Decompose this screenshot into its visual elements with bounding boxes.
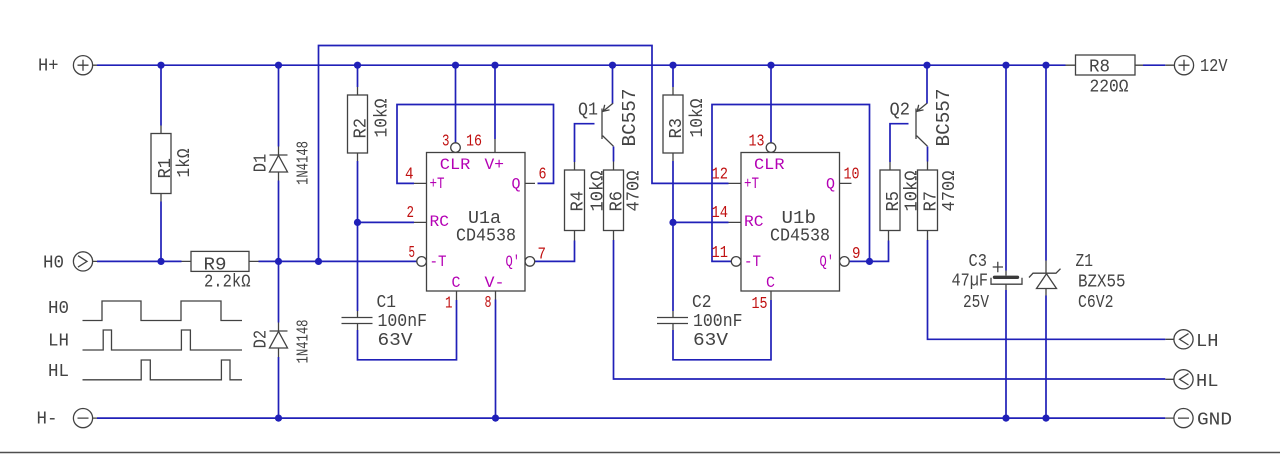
svg-text:10kΩ: 10kΩ — [373, 98, 393, 137]
terminal 12V — [1165, 56, 1227, 77]
svg-text:R8: R8 — [1089, 57, 1110, 77]
svg-text:14: 14 — [712, 204, 729, 223]
junction H+ bus / U1a pin 3 — [452, 62, 459, 69]
svg-text:1N4148: 1N4148 — [295, 320, 314, 364]
svg-text:D2: D2 — [252, 330, 272, 349]
svg-text:V-: V- — [485, 274, 505, 292]
svg-text:1: 1 — [445, 294, 453, 313]
svg-text:CLR: CLR — [440, 156, 471, 174]
junction H+ bus / U1b pin 13 — [767, 62, 774, 69]
svg-text:C: C — [452, 274, 461, 292]
wire H- bus — [97, 417, 1165, 419]
terminal LH — [1165, 330, 1218, 352]
wire R2 branch — [357, 65, 359, 311]
wire U1a Q' pin7 to R4 — [535, 241, 575, 262]
svg-text:13: 13 — [749, 132, 765, 151]
svg-text:Q': Q' — [820, 253, 835, 271]
svg-text:16: 16 — [466, 132, 482, 151]
resistor R7 — [918, 162, 961, 241]
wire R1 branch — [160, 65, 162, 261]
svg-text:25V: 25V — [963, 293, 989, 313]
diode D2 — [252, 320, 314, 364]
svg-text:2: 2 — [407, 204, 415, 223]
junction H- bus / D2 — [275, 415, 282, 422]
svg-text:C3: C3 — [969, 252, 988, 272]
resistor R4 — [565, 162, 609, 241]
svg-text:4: 4 — [405, 165, 414, 184]
svg-text:CLR: CLR — [754, 156, 785, 174]
wire Q1 collector to R6 — [613, 147, 615, 162]
wire U1b -T loop to Q' — [712, 105, 870, 262]
svg-text:5: 5 — [409, 244, 416, 263]
junction H- bus / U1a pin 8 — [492, 415, 499, 422]
svg-text:R4: R4 — [569, 191, 589, 212]
svg-text:H0: H0 — [48, 299, 69, 319]
waveform LH — [48, 330, 242, 351]
svg-text:Q': Q' — [506, 253, 521, 271]
svg-text:H0: H0 — [43, 253, 64, 273]
svg-text:+T: +T — [430, 175, 445, 193]
svg-text:1kΩ: 1kΩ — [175, 148, 195, 177]
svg-text:+T: +T — [744, 175, 759, 193]
terminal HL — [1165, 370, 1218, 392]
wire R4 to Q1 base — [575, 124, 595, 162]
terminal GND — [1165, 409, 1232, 431]
svg-text:100nF: 100nF — [378, 312, 428, 332]
wire U1b CLR pin13 — [770, 65, 772, 142]
svg-text:R1: R1 — [156, 158, 176, 179]
resistor R9 — [182, 251, 259, 292]
svg-text:Z1: Z1 — [1076, 252, 1094, 272]
svg-text:8: 8 — [485, 294, 492, 313]
wire C3 branch — [1005, 65, 1007, 418]
svg-text:63V: 63V — [378, 331, 413, 351]
junction H+ bus / R2 — [354, 62, 361, 69]
junction H+ bus / C3 — [1002, 62, 1009, 69]
junction node RC2 (R3/C2/U1b pin 14) — [669, 219, 676, 226]
diode D1 — [252, 141, 314, 185]
svg-text:C1: C1 — [377, 293, 397, 313]
resistor R6 — [604, 162, 645, 241]
svg-text:R3: R3 — [667, 118, 687, 139]
wire D1 D2 branch — [278, 65, 280, 418]
wire U1b RC pin14 — [673, 221, 729, 223]
svg-text:470Ω: 470Ω — [625, 170, 645, 211]
transistor Q1 — [578, 89, 641, 147]
svg-text:220Ω: 220Ω — [1090, 77, 1129, 97]
wire Q2 emitter to bus — [926, 65, 928, 103]
svg-text:H+: H+ — [38, 57, 59, 77]
svg-text:15: 15 — [752, 295, 768, 314]
wire R7 to LH line — [928, 240, 1166, 339]
wire R3 branch — [672, 65, 674, 311]
terminal H+ — [38, 56, 97, 77]
waveform HL — [48, 360, 242, 382]
IC U1a — [405, 132, 547, 313]
terminal H- — [37, 409, 98, 430]
svg-text:RC: RC — [430, 213, 450, 231]
wire Q2 collector to R7 — [927, 147, 929, 162]
wire R8 to 12V — [1143, 64, 1165, 66]
svg-text:470Ω: 470Ω — [940, 170, 960, 211]
svg-text:R2: R2 — [352, 118, 372, 139]
wire Z1 branch — [1045, 65, 1047, 418]
wire H0 to U1b +T — [319, 46, 729, 262]
svg-text:6: 6 — [539, 165, 547, 184]
wire Q1 emitter to bus — [612, 65, 614, 103]
svg-text:BZX55: BZX55 — [1078, 272, 1126, 292]
svg-text:CD4538: CD4538 — [770, 226, 830, 246]
junction H- bus / Z1 — [1042, 415, 1049, 422]
capacitor C2 — [657, 293, 743, 351]
junction H+ bus / R3 — [669, 62, 676, 69]
junction H0 node / riser to U1b +T — [315, 258, 322, 265]
wire C2 to pin15 — [673, 300, 771, 360]
svg-text:HL: HL — [1196, 372, 1219, 392]
wire U1a V- pin8 to H- — [495, 300, 497, 419]
wire U1a CLR pin3 — [455, 65, 457, 142]
svg-text:HL: HL — [48, 362, 69, 382]
svg-text:10kΩ: 10kΩ — [688, 98, 708, 137]
svg-text:Q2: Q2 — [890, 101, 911, 121]
junction H+ bus / Z1 — [1042, 62, 1049, 69]
svg-text:C2: C2 — [692, 293, 712, 313]
svg-text:63V: 63V — [693, 331, 728, 351]
junction H+ bus / U1a pin 16 — [491, 62, 498, 69]
svg-text:7: 7 — [538, 245, 547, 264]
resistor R5 — [880, 162, 923, 241]
junction H+ bus / D1 — [275, 62, 282, 69]
wire H0 row — [97, 260, 417, 262]
capacitor C1 — [342, 293, 428, 351]
svg-text:Q: Q — [512, 176, 521, 194]
wire U1a feedback Q to +T — [397, 105, 554, 184]
junction H+ bus / Q1 emitter — [609, 62, 616, 69]
wire U1a V+ pin16 — [494, 65, 496, 139]
svg-text:10: 10 — [844, 165, 860, 184]
wire U1b Q' pin9 to R5 — [850, 241, 889, 262]
waveform H0 — [48, 299, 242, 320]
svg-text:RC: RC — [744, 213, 764, 231]
junction H+ bus / R1 — [157, 62, 164, 69]
svg-text:D1: D1 — [252, 154, 272, 173]
svg-text:12: 12 — [712, 165, 729, 184]
svg-text:1N4148: 1N4148 — [295, 141, 314, 185]
zener diode Z1 — [1029, 252, 1126, 313]
svg-text:GND: GND — [1197, 410, 1232, 430]
svg-text:R7: R7 — [922, 191, 942, 212]
wire C1 to pin1 — [358, 300, 457, 360]
svg-text:12V: 12V — [1200, 57, 1228, 77]
capacitor C3 — [952, 252, 1023, 313]
wire R6 to HL line — [614, 240, 1166, 379]
wire top H+ bus — [97, 64, 1066, 66]
svg-text:R5: R5 — [884, 191, 904, 212]
svg-text:2.2kΩ: 2.2kΩ — [204, 273, 251, 293]
svg-text:47µF: 47µF — [952, 272, 989, 292]
svg-text:CD4538: CD4538 — [456, 226, 516, 246]
resistor R1 — [151, 126, 195, 202]
resistor R3 — [663, 87, 708, 161]
svg-text:H-: H- — [37, 409, 58, 429]
terminal H0 — [43, 252, 97, 274]
junction H- bus / C3 — [1002, 415, 1009, 422]
resistor R2 — [348, 87, 393, 161]
svg-text:100nF: 100nF — [693, 312, 743, 332]
junction U1b Q' node — [866, 258, 873, 265]
svg-text:C: C — [766, 274, 775, 292]
transistor Q2 — [890, 89, 956, 147]
svg-text:C6V2: C6V2 — [1078, 293, 1114, 313]
svg-text:Q: Q — [826, 176, 835, 194]
IC U1b — [712, 132, 861, 314]
junction H+ bus / Q2 emitter — [923, 62, 930, 69]
resistor R8 — [1066, 55, 1144, 97]
junction H0 node / R1 — [157, 258, 164, 265]
wire R5 to Q2 base — [890, 124, 909, 162]
junction node RC1 (R2/C1/U1a pin 2) — [354, 219, 361, 226]
junction H0 node / D1 D2 — [275, 258, 282, 265]
svg-text:Q1: Q1 — [578, 101, 598, 121]
svg-text:9: 9 — [852, 245, 861, 264]
svg-text:BC557: BC557 — [933, 89, 955, 147]
svg-text:LH: LH — [48, 331, 69, 351]
svg-text:BC557: BC557 — [619, 89, 641, 147]
svg-text:V+: V+ — [485, 156, 505, 174]
svg-text:11: 11 — [712, 244, 729, 263]
svg-text:-T: -T — [430, 253, 447, 271]
svg-text:LH: LH — [1196, 332, 1219, 352]
wire U1a RC pin2 — [358, 221, 415, 223]
svg-text:-T: -T — [744, 253, 761, 271]
svg-text:3: 3 — [442, 132, 450, 151]
